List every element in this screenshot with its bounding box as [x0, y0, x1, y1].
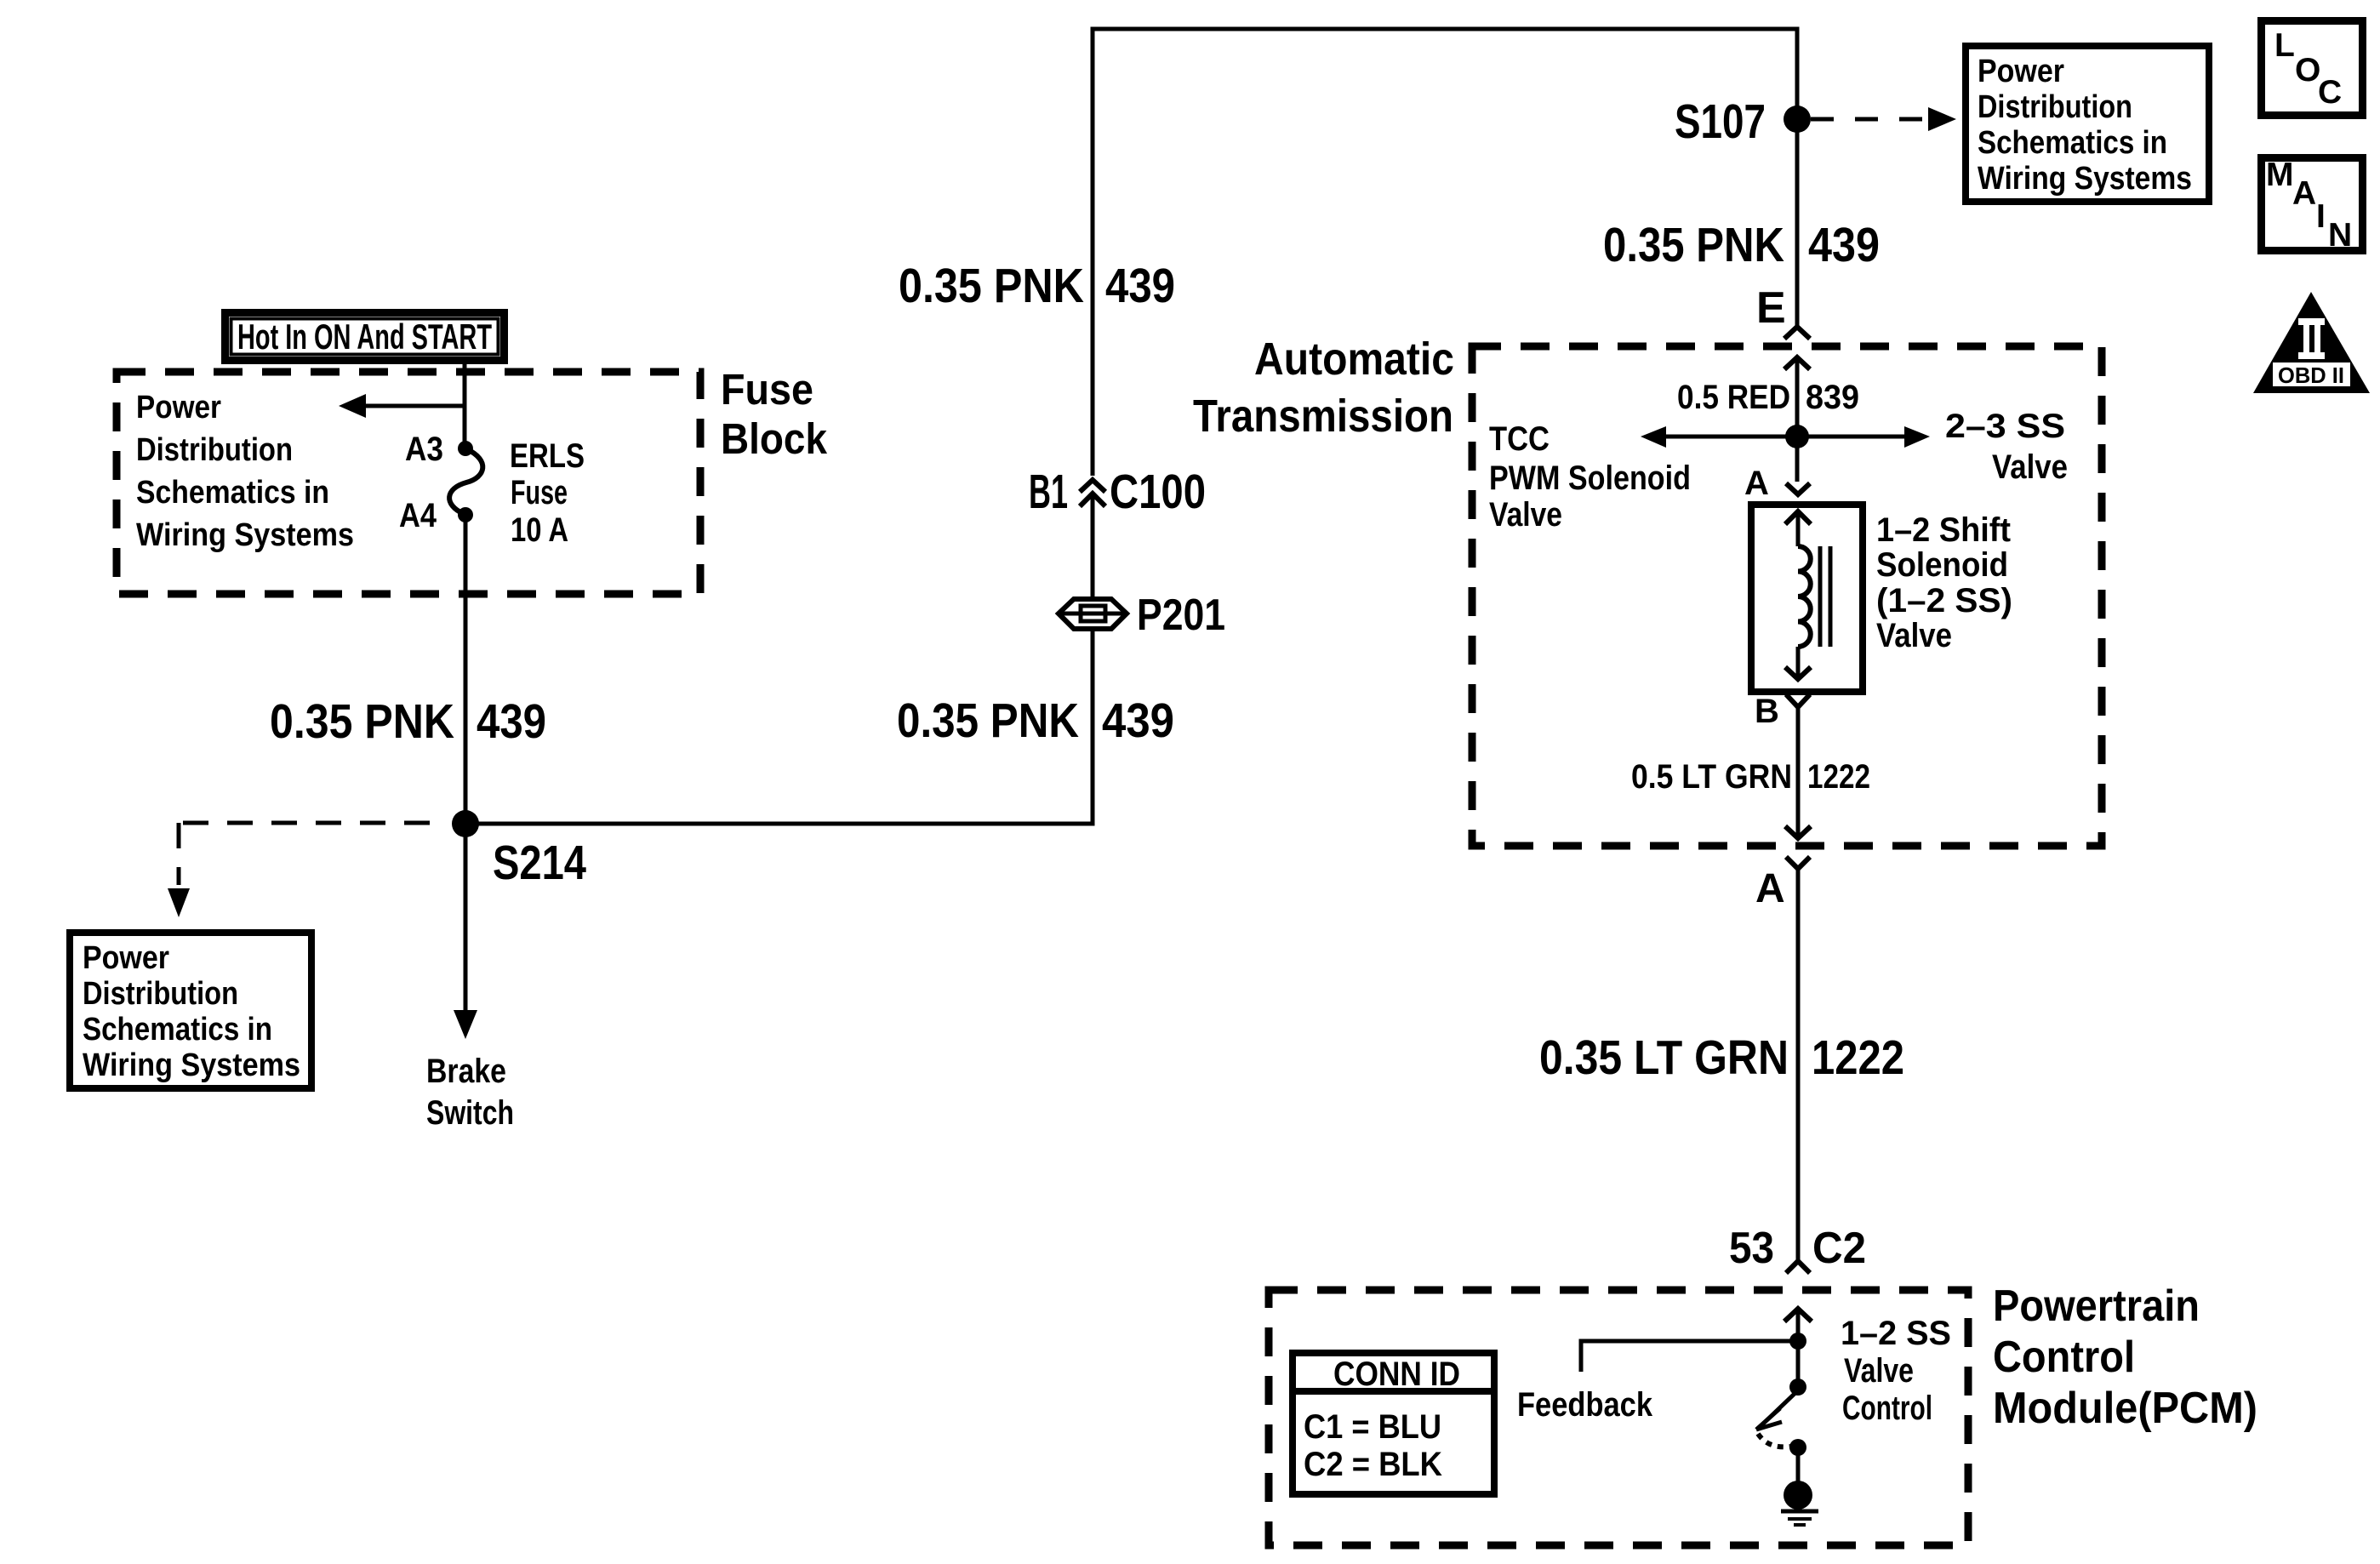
- connector E male half arrow into box: [1784, 357, 1810, 369]
- svg-text:Switch: Switch: [426, 1094, 514, 1132]
- dashed reference wire down: [177, 823, 181, 885]
- connector male arrow into PCM: [1784, 1309, 1812, 1321]
- svg-text:S107: S107: [1675, 94, 1766, 149]
- arrowhead left to TCC PWM Solenoid Valve: [1641, 426, 1666, 448]
- svg-text:Schematics in: Schematics in: [1978, 125, 2167, 161]
- svg-text:A: A: [1744, 465, 1769, 502]
- wire below C100 to P201: [1091, 494, 1095, 599]
- label ERLS Fuse 10 A: [510, 437, 585, 549]
- label Powertrain Control Module(PCM): [1993, 1281, 2257, 1433]
- svg-text:0.35 PNK: 0.35 PNK: [899, 259, 1084, 313]
- svg-text:439: 439: [1102, 694, 1174, 748]
- svg-text:Solenoid: Solenoid: [1876, 546, 2008, 584]
- SECTION: pcm: [1269, 1224, 2257, 1545]
- svg-text:P201: P201: [1137, 591, 1225, 640]
- svg-text:O: O: [2295, 52, 2320, 88]
- svg-text:0.35 PNK: 0.35 PNK: [897, 694, 1079, 748]
- arrowhead to brake switch: [454, 1010, 477, 1039]
- svg-text:E: E: [1756, 283, 1786, 333]
- arrowhead right to 2-3 SS Valve: [1904, 426, 1930, 448]
- svg-text:Distribution: Distribution: [136, 432, 293, 468]
- svg-text:0.35 LT GRN: 0.35 LT GRN: [1539, 1030, 1789, 1085]
- svg-text:Schematics in: Schematics in: [83, 1012, 272, 1047]
- svg-text:Fuse: Fuse: [721, 365, 813, 414]
- dashed reference wire left from S214: [179, 821, 430, 825]
- label TCC PWM Solenoid Valve: [1489, 420, 1691, 534]
- switch dotted travel arc: [1758, 1434, 1790, 1447]
- wire top run: left vertical up, across top, down right side: [1093, 29, 1797, 476]
- splice P201 grommet symbol: [1059, 599, 1127, 629]
- solenoid coil: [1798, 546, 1811, 647]
- svg-text:C2: C2: [1812, 1224, 1866, 1273]
- svg-text:A: A: [1755, 866, 1785, 911]
- solenoid core bars: [1820, 546, 1830, 647]
- svg-text:Power: Power: [136, 390, 221, 425]
- svg-text:TCC: TCC: [1489, 420, 1550, 458]
- wire arrow to power distribution (left): [366, 404, 465, 408]
- node S214: [452, 810, 479, 837]
- pin A4 dot: [458, 507, 473, 522]
- svg-text:Control: Control: [1993, 1333, 2135, 1382]
- svg-text:Automatic: Automatic: [1254, 334, 1454, 385]
- svg-text:2–3 SS: 2–3 SS: [1945, 408, 2065, 445]
- switch node top: [1789, 1333, 1806, 1350]
- svg-text:439: 439: [477, 694, 546, 749]
- svg-text:A: A: [2292, 175, 2316, 212]
- svg-text:Valve: Valve: [1844, 1352, 1914, 1390]
- wire to ground: [1796, 1447, 1801, 1481]
- label 0.35 PNK 439 (right vertical): [1603, 218, 1880, 272]
- SECTION: corner symbols: [2253, 21, 2370, 394]
- svg-text:A3: A3: [405, 431, 443, 468]
- OBD II triangle symbol: [2253, 292, 2370, 393]
- svg-text:OBD II: OBD II: [2278, 362, 2344, 388]
- SECTION: s214 area: [70, 810, 586, 1132]
- svg-text:Powertrain: Powertrain: [1993, 1281, 2200, 1331]
- arrowhead to power distribution box: [168, 888, 190, 917]
- svg-text:Wiring Systems: Wiring Systems: [1978, 161, 2192, 197]
- svg-text:B1: B1: [1029, 465, 1068, 519]
- svg-text:Feedback: Feedback: [1517, 1386, 1653, 1424]
- fuse block dashed box: [117, 372, 700, 594]
- svg-text:Brake: Brake: [426, 1053, 506, 1090]
- feedback wire: [1581, 1341, 1798, 1372]
- SECTION: fuse block: [117, 313, 828, 825]
- svg-text:0.35 PNK: 0.35 PNK: [270, 694, 454, 749]
- svg-text:S214: S214: [493, 836, 586, 890]
- svg-text:N: N: [2328, 217, 2352, 254]
- svg-text:1222: 1222: [1812, 1030, 1904, 1085]
- label 0.35 PNK 439 (mid bottom): [897, 694, 1174, 748]
- wire junction down to pin A: [1795, 437, 1800, 482]
- wire down to PCM pin 53: [1796, 869, 1801, 1261]
- wire E to junction: [1795, 357, 1800, 437]
- label 0.35 PNK 439 (left vertical): [270, 694, 546, 749]
- svg-text:L: L: [2274, 27, 2295, 64]
- dashed reference wire right from S107: [1811, 117, 1930, 122]
- connector B1 C100 female half: [1080, 480, 1105, 492]
- solenoid 1-2 shift box: [1751, 505, 1863, 692]
- svg-text:439: 439: [1808, 218, 1880, 272]
- SECTION: transmission: [1193, 283, 2102, 1261]
- wire P201 down then left to S214: [465, 629, 1093, 824]
- svg-text:Wiring Systems: Wiring Systems: [136, 517, 354, 553]
- label 0.35 LT GRN 1222: [1539, 1030, 1904, 1085]
- svg-text:(1–2 SS): (1–2 SS): [1876, 582, 2012, 619]
- LOC legend box: [2262, 21, 2363, 116]
- svg-text:ERLS: ERLS: [510, 437, 585, 475]
- node S107: [1784, 106, 1811, 133]
- svg-text:1–2 SS: 1–2 SS: [1841, 1315, 1951, 1352]
- text Power Distribution Schematics in Wiring Systems (fuse block): [136, 390, 354, 553]
- svg-text:0.5 RED: 0.5 RED: [1677, 379, 1790, 416]
- svg-text:0.35 PNK: 0.35 PNK: [1603, 218, 1784, 272]
- connector B1 C100 male half: [1080, 494, 1105, 506]
- svg-text:C2 = BLK: C2 = BLK: [1304, 1446, 1442, 1483]
- svg-text:Hot In ON And START: Hot In ON And START: [237, 317, 492, 357]
- label 1-2 Shift Solenoid (1-2 SS) Valve: [1876, 511, 2012, 654]
- svg-text:1222: 1222: [1807, 758, 1870, 796]
- svg-text:Distribution: Distribution: [1978, 89, 2132, 125]
- svg-text:A4: A4: [399, 497, 437, 534]
- svg-text:Control: Control: [1842, 1390, 1932, 1427]
- svg-text:CONN ID: CONN ID: [1333, 1356, 1460, 1393]
- connector pin B female: [1786, 694, 1810, 707]
- svg-text:Transmission: Transmission: [1193, 391, 1453, 442]
- label 0.5 RED 839: [1677, 379, 1859, 416]
- solenoid internal down arrow: [1796, 647, 1801, 679]
- arrowhead to power distribution box: [1928, 107, 1956, 131]
- SECTION: main wires: [465, 29, 1880, 824]
- svg-text:439: 439: [1105, 259, 1175, 313]
- connector arrow at transmission box edge: [1785, 826, 1811, 838]
- fuse ERLS element S-curve: [449, 449, 482, 514]
- svg-text:Block: Block: [721, 414, 828, 463]
- label 1-2 SS Valve Control: [1841, 1315, 1951, 1427]
- solenoid internal up arrow: [1785, 511, 1811, 524]
- automatic transmission dashed box: [1472, 346, 2102, 846]
- label Brake Switch: [426, 1053, 514, 1132]
- svg-text:Valve: Valve: [1992, 448, 2068, 486]
- PCM dashed box: [1269, 1290, 1968, 1545]
- svg-text:Valve: Valve: [1876, 617, 1952, 654]
- svg-text:B: B: [1755, 693, 1779, 730]
- switch node bottom: [1789, 1439, 1806, 1456]
- svg-text:Schematics in: Schematics in: [136, 475, 329, 511]
- svg-text:C1 = BLU: C1 = BLU: [1304, 1408, 1441, 1446]
- switch arm: [1760, 1390, 1798, 1427]
- wire S214 down to brake switch: [464, 824, 468, 1010]
- svg-text:Valve: Valve: [1489, 496, 1562, 534]
- svg-text:10 A: 10 A: [511, 511, 568, 549]
- switch wire: [1796, 1341, 1801, 1387]
- ground symbol: [1781, 1481, 1818, 1525]
- pin A3 dot: [458, 441, 473, 456]
- svg-text:Wiring Systems: Wiring Systems: [83, 1047, 300, 1083]
- svg-text:Power: Power: [83, 940, 169, 976]
- svg-text:Fuse: Fuse: [511, 474, 568, 511]
- svg-text:53: 53: [1729, 1224, 1774, 1273]
- SECTION: s107 area: [1675, 46, 2209, 202]
- svg-text:C100: C100: [1110, 465, 1206, 519]
- connector E female half: [1784, 327, 1810, 339]
- svg-text:C: C: [2318, 74, 2342, 111]
- switch node pivot: [1789, 1378, 1806, 1396]
- reference box Power Distribution Schematics in Wiring Systems (top right): [1966, 46, 2209, 202]
- svg-text:Power: Power: [1978, 54, 2064, 89]
- svg-text:0.5 LT GRN: 0.5 LT GRN: [1631, 758, 1792, 796]
- label 0.5 LT GRN 1222: [1631, 758, 1870, 796]
- svg-text:Module(PCM): Module(PCM): [1993, 1384, 2257, 1433]
- connector pin 53 C2 female: [1786, 1261, 1810, 1273]
- svg-text:Distribution: Distribution: [83, 976, 238, 1012]
- connector female below box: [1786, 857, 1810, 869]
- svg-text:PWM Solenoid: PWM Solenoid: [1489, 459, 1691, 497]
- junction node with left/right arrows: [1785, 425, 1809, 448]
- wire from Hot In box down to fuse: [463, 360, 467, 448]
- label box Hot In ON And START: [225, 313, 505, 361]
- svg-text:839: 839: [1806, 379, 1859, 416]
- label Automatic Transmission: [1193, 334, 1454, 442]
- svg-text:I: I: [2316, 198, 2326, 235]
- CONN ID table: [1293, 1353, 1494, 1494]
- svg-text:M: M: [2266, 157, 2294, 193]
- wire from A4 down to S214: [464, 515, 468, 824]
- svg-text:1–2 Shift: 1–2 Shift: [1876, 511, 2011, 549]
- label 0.35 PNK 439 (mid top): [899, 259, 1175, 313]
- connector pin A female: [1786, 483, 1810, 494]
- wire B down to box edge: [1796, 707, 1801, 838]
- reference box Power Distribution Schematics in Wiring Systems (lower left): [70, 933, 311, 1088]
- MAIN legend box: [2262, 157, 2363, 254]
- label 2-3 SS Valve: [1945, 408, 2068, 486]
